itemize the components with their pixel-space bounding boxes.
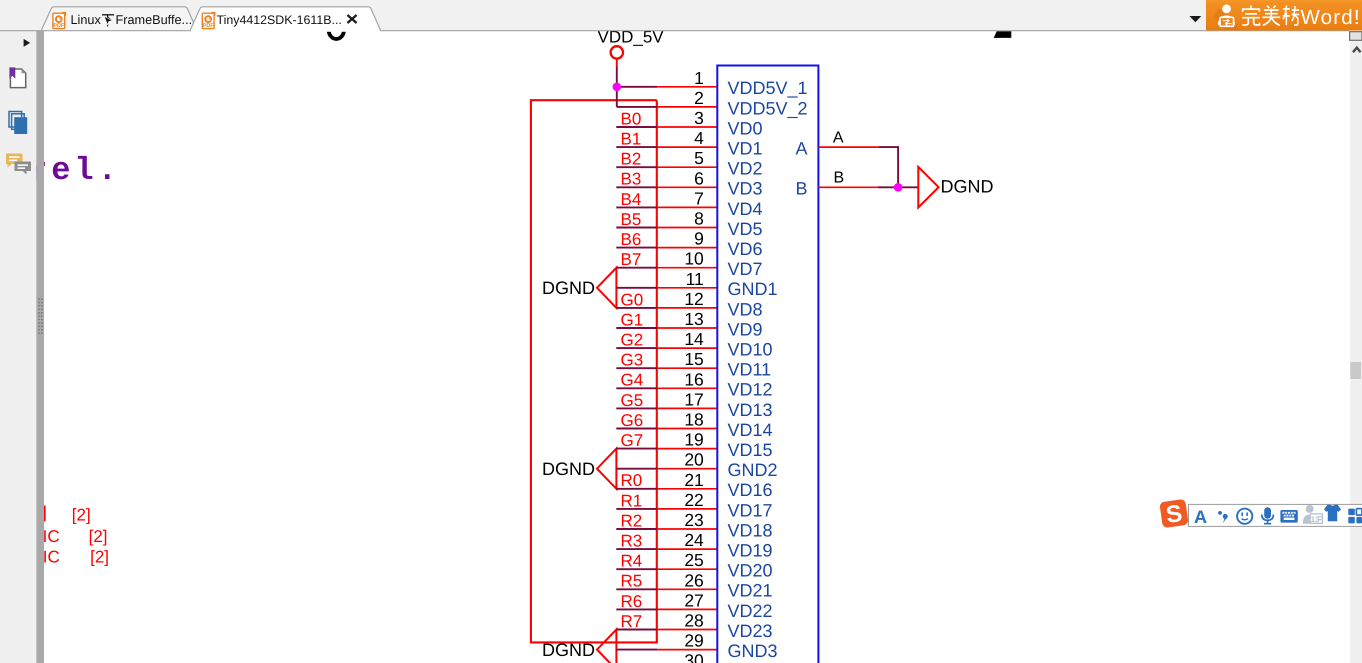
- svg-text:[2]: [2]: [90, 548, 109, 567]
- svg-text:VD20: VD20: [728, 561, 773, 581]
- svg-text:B: B: [795, 179, 807, 199]
- svg-text:VDD5V_2: VDD5V_2: [728, 98, 808, 118]
- svg-text:IC: IC: [43, 527, 60, 546]
- svg-text:VD18: VD18: [728, 520, 773, 540]
- svg-text:4: 4: [694, 128, 704, 148]
- svg-text:13: 13: [1311, 515, 1320, 524]
- svg-text:29: 29: [684, 631, 703, 651]
- svg-text:1: 1: [694, 68, 704, 88]
- svg-text:27: 27: [684, 590, 703, 610]
- svg-text:21: 21: [684, 470, 703, 490]
- svg-text:DGND: DGND: [941, 177, 994, 197]
- svg-text:18: 18: [684, 410, 703, 430]
- svg-text:A: A: [795, 138, 807, 158]
- svg-text:VD11: VD11: [728, 360, 772, 380]
- svg-text:B1: B1: [621, 130, 642, 149]
- svg-text:PDF: PDF: [203, 23, 214, 29]
- svg-text:17: 17: [684, 389, 703, 409]
- svg-text:R2: R2: [621, 511, 643, 530]
- svg-text:GND2: GND2: [728, 460, 778, 480]
- svg-text:VD2: VD2: [728, 159, 763, 179]
- svg-text:G0: G0: [621, 290, 644, 309]
- svg-text:R7: R7: [621, 612, 643, 631]
- svg-text:R1: R1: [621, 491, 643, 510]
- svg-text:GND1: GND1: [728, 279, 778, 299]
- svg-text:3: 3: [694, 108, 704, 128]
- svg-text:VD0: VD0: [728, 118, 763, 138]
- svg-text:5: 5: [694, 148, 704, 168]
- svg-text:R6: R6: [621, 592, 643, 611]
- svg-text:28: 28: [684, 611, 703, 631]
- svg-text:VD16: VD16: [728, 480, 773, 500]
- svg-text:DGND: DGND: [542, 459, 595, 479]
- svg-text:G4: G4: [621, 371, 644, 390]
- svg-text:B: B: [834, 170, 845, 187]
- svg-text:22: 22: [684, 490, 703, 510]
- svg-text:VD21: VD21: [728, 581, 773, 601]
- svg-text:B3: B3: [621, 170, 642, 189]
- svg-text:VDD5V_1: VDD5V_1: [728, 78, 808, 98]
- svg-text:VD6: VD6: [728, 239, 763, 259]
- svg-text:Word!: Word!: [1301, 6, 1361, 29]
- svg-text:VD1: VD1: [728, 139, 763, 159]
- svg-text:B5: B5: [621, 210, 642, 229]
- svg-text:G7: G7: [621, 431, 644, 450]
- svg-text:16: 16: [684, 369, 703, 389]
- svg-text:20: 20: [684, 450, 704, 470]
- svg-text:9: 9: [694, 229, 704, 249]
- svg-text:B2: B2: [621, 150, 642, 169]
- svg-text:IC: IC: [43, 548, 60, 567]
- svg-text:8: 8: [694, 209, 704, 229]
- svg-text:FrameBuffe...: FrameBuffe...: [116, 13, 193, 27]
- svg-text:VD8: VD8: [728, 299, 763, 319]
- svg-text:Tiny4412SDK-1611B...: Tiny4412SDK-1611B...: [217, 13, 342, 27]
- svg-text:VD4: VD4: [728, 199, 763, 219]
- svg-text:30: 30: [684, 651, 704, 663]
- svg-text:VD10: VD10: [728, 340, 773, 360]
- svg-text:VD9: VD9: [728, 319, 763, 339]
- svg-text:VD12: VD12: [728, 380, 773, 400]
- svg-text:6: 6: [694, 168, 704, 188]
- svg-text:R3: R3: [621, 532, 643, 551]
- svg-text:19: 19: [684, 430, 703, 450]
- svg-text:15: 15: [684, 349, 703, 369]
- svg-text:VD23: VD23: [728, 621, 773, 641]
- svg-text:G6: G6: [621, 411, 644, 430]
- svg-text:14: 14: [684, 329, 704, 349]
- svg-text:R0: R0: [621, 471, 643, 490]
- svg-text:VD13: VD13: [728, 400, 773, 420]
- svg-text:G2: G2: [621, 331, 644, 350]
- svg-text:2: 2: [694, 88, 704, 108]
- svg-text:A: A: [1194, 507, 1207, 527]
- svg-text:G1: G1: [621, 310, 644, 329]
- svg-text:B0: B0: [621, 109, 642, 128]
- svg-text:10: 10: [684, 249, 704, 269]
- svg-text:24: 24: [684, 530, 704, 550]
- svg-text:25: 25: [684, 550, 703, 570]
- svg-text:26: 26: [684, 570, 703, 590]
- svg-text:[2]: [2]: [72, 506, 91, 525]
- svg-text:PDF: PDF: [53, 23, 64, 29]
- svg-text:B4: B4: [621, 190, 642, 209]
- svg-text:G3: G3: [621, 351, 644, 370]
- svg-text:GND3: GND3: [728, 641, 778, 661]
- svg-text:B7: B7: [621, 250, 642, 269]
- svg-text:R5: R5: [621, 572, 643, 591]
- svg-text:VD19: VD19: [728, 541, 773, 561]
- svg-text:VD7: VD7: [728, 259, 763, 279]
- svg-text:[2]: [2]: [89, 527, 108, 546]
- svg-text:VD22: VD22: [728, 601, 773, 621]
- svg-text:VD14: VD14: [728, 420, 773, 440]
- svg-text:G5: G5: [621, 391, 644, 410]
- svg-text:A: A: [833, 129, 844, 146]
- svg-text:12: 12: [684, 289, 703, 309]
- svg-text:VD5: VD5: [728, 219, 763, 239]
- svg-text:11: 11: [686, 269, 704, 289]
- svg-text:Linux: Linux: [71, 13, 102, 27]
- svg-text:B6: B6: [621, 230, 642, 249]
- svg-text:7: 7: [694, 188, 704, 208]
- svg-text:VD17: VD17: [728, 500, 773, 520]
- svg-text:13: 13: [684, 309, 703, 329]
- svg-text:VD15: VD15: [728, 440, 773, 460]
- svg-text:23: 23: [684, 510, 703, 530]
- svg-text:R4: R4: [621, 552, 643, 571]
- svg-text:DGND: DGND: [542, 278, 595, 298]
- svg-text:VD3: VD3: [728, 179, 763, 199]
